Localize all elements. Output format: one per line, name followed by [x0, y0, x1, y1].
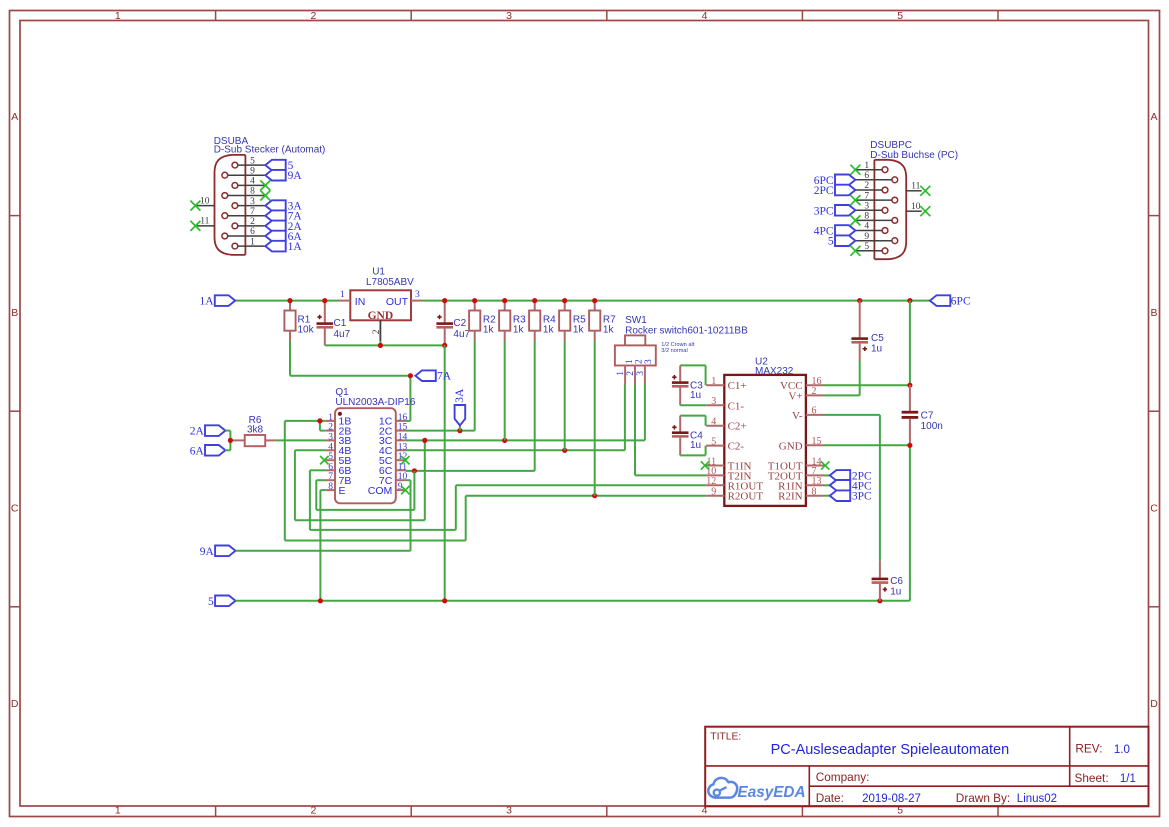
capacitor C2 4u7: [436, 301, 470, 346]
svg-text:15: 15: [812, 436, 822, 447]
Q1 pin 10 7C: [379, 472, 408, 487]
svg-text:D: D: [11, 698, 19, 710]
svg-text:6A: 6A: [190, 445, 205, 457]
node 6PC flag: [930, 295, 971, 307]
DSUBA pin 3: [232, 197, 265, 209]
resistor R5 1k: [559, 303, 586, 341]
DSUBA pin 11: [190, 217, 214, 231]
svg-text:E: E: [339, 485, 346, 497]
wire 6C row to R4: [406, 341, 535, 471]
junction VCC C7: [907, 383, 912, 388]
frame row letters right: [1150, 111, 1158, 710]
svg-text:GND: GND: [779, 440, 803, 452]
node 9A flag: [200, 546, 236, 558]
svg-text:C2+: C2+: [728, 421, 747, 433]
svg-text:3: 3: [636, 371, 646, 376]
node 2PC flag: [830, 470, 872, 482]
frame column numbers bottom: [115, 805, 903, 817]
svg-text:5: 5: [328, 452, 333, 462]
U2 pin 12 R1OUT: [706, 476, 763, 492]
svg-text:7: 7: [328, 472, 333, 482]
wire R2IN to 3PC: [824, 495, 830, 497]
node 2A flag: [190, 425, 226, 437]
svg-text:9A: 9A: [288, 170, 303, 182]
svg-text:9: 9: [711, 487, 716, 498]
U2 pin 4 C2+: [706, 417, 746, 433]
svg-text:3: 3: [250, 197, 255, 207]
DSUBPC pin 4: [855, 222, 887, 234]
svg-text:7: 7: [864, 191, 869, 201]
node 6A flag: [190, 445, 226, 457]
U2 pin 14 T1OUT: [768, 456, 824, 472]
U2 pin 3 C1-: [706, 396, 744, 412]
Q1 pin 9 COM: [368, 482, 406, 497]
wire R3 bottom: [504, 341, 506, 440]
svg-text:2: 2: [372, 329, 382, 334]
svg-text:3: 3: [415, 290, 420, 300]
wire 1B loop to R2OUT: [285, 421, 706, 541]
svg-text:8: 8: [812, 487, 817, 498]
svg-text:1A: 1A: [199, 296, 214, 308]
Q1 pin 4 4B: [325, 442, 351, 457]
capacitor C7 100n: [902, 385, 943, 445]
svg-text:4: 4: [702, 10, 708, 22]
svg-text:2: 2: [634, 359, 644, 364]
SW1 pin 3: [636, 366, 646, 385]
switch SW1 Rocker switch601-10211BB: [615, 315, 748, 366]
svg-text:COM: COM: [368, 485, 393, 497]
svg-text:4: 4: [250, 177, 255, 187]
DSUBPC pin 7: [855, 191, 897, 203]
svg-text:1: 1: [340, 290, 345, 300]
junction C6 bottom: [877, 598, 882, 603]
svg-text:1: 1: [711, 376, 716, 387]
svg-text:9: 9: [864, 232, 869, 242]
svg-text:A: A: [1150, 111, 1157, 123]
svg-text:2A: 2A: [190, 426, 205, 438]
junction 2A-6A: [228, 438, 233, 443]
Q1 pin 14 3C: [379, 432, 408, 447]
svg-text:ULN2003A-DIP16: ULN2003A-DIP16: [335, 397, 415, 408]
svg-text:C: C: [11, 502, 19, 514]
SW1 note text: [661, 342, 694, 354]
svg-text:1k: 1k: [573, 324, 585, 335]
svg-text:OUT: OUT: [386, 296, 409, 308]
wire R1IN to 4PC: [824, 484, 830, 486]
svg-text:R2OUT: R2OUT: [728, 491, 764, 503]
DSUBA pin 10: [190, 196, 214, 210]
junction R5 bottom: [562, 448, 567, 453]
wire Q1 E to bottom rail: [320, 490, 325, 601]
wire 4C row to SW1 pin1: [406, 385, 625, 451]
capacitor C5 1u: [851, 301, 884, 396]
DSUBPC net flag 3PC: [814, 205, 856, 217]
SW1 pin 2: [626, 366, 636, 385]
U2 no-connect T1IN: [701, 461, 709, 469]
svg-text:1k: 1k: [483, 324, 495, 335]
U1 pin 1: [339, 290, 351, 301]
DSUBA net flag 6A: [265, 231, 302, 243]
junction R3 bottom: [502, 438, 507, 443]
connector DSUBA D-Sub Stecker (Automat): [214, 136, 326, 255]
junction 7A: [408, 373, 413, 378]
svg-text:8: 8: [864, 212, 869, 222]
svg-text:L7805ABV: L7805ABV: [366, 277, 414, 288]
wire 4B loop to 3C: [295, 440, 425, 520]
U2 pin 8 R2IN: [778, 487, 824, 503]
U2 pin 13 R1IN: [778, 476, 824, 492]
resistor R1 10k: [284, 303, 314, 341]
svg-text:1: 1: [864, 161, 869, 171]
Q1 pin 16 1C: [379, 413, 408, 428]
capacitor C3 1u: [672, 365, 706, 405]
wire R5 bottom: [564, 341, 566, 450]
resistor R6 3k8: [235, 415, 276, 446]
svg-text:Date:: Date:: [816, 791, 844, 805]
frame row ticks right: [1149, 216, 1160, 607]
wire C2 gnd to bottom rail: [444, 345, 446, 600]
svg-text:1: 1: [115, 10, 121, 22]
DSUBPC no-connect pin 1: [850, 165, 860, 175]
svg-text:1: 1: [625, 359, 635, 364]
svg-text:D: D: [1150, 698, 1158, 710]
svg-text:SW1: SW1: [625, 315, 647, 326]
junction E bottom: [318, 598, 323, 603]
ic U2 MAX232: [724, 357, 806, 506]
title block frame: [705, 727, 1148, 807]
svg-text:B: B: [11, 307, 18, 319]
DSUBPC net flag 4PC: [814, 225, 856, 237]
svg-text:10: 10: [200, 196, 210, 206]
svg-text:3: 3: [328, 432, 333, 442]
DSUBPC no-connect pin 7: [850, 195, 860, 205]
net 1A top rail wire: [235, 300, 930, 302]
U2 pin 16 VCC: [780, 376, 824, 392]
svg-text:4u7: 4u7: [334, 329, 351, 340]
frame column ticks top: [216, 11, 998, 21]
svg-text:1u: 1u: [871, 343, 882, 354]
DSUBA pin 1: [232, 237, 265, 249]
node 3PC flag: [830, 490, 872, 502]
junctions on top rail: [287, 298, 912, 303]
DSUBPC pin 9: [855, 232, 897, 244]
DSUBA pin 2: [232, 217, 265, 229]
svg-text:4u7: 4u7: [453, 329, 470, 340]
wire R6 to Q1 3B: [275, 439, 325, 441]
svg-text:3PC: 3PC: [852, 491, 872, 503]
U1 pin 2 GND: [372, 320, 382, 345]
node 7A flag: [415, 370, 451, 382]
DSUBA pin 9: [222, 166, 265, 178]
capacitor C1 4u7: [317, 301, 351, 346]
Q1 pin 12 5C: [379, 452, 408, 467]
wire bottom rail: [236, 600, 910, 602]
junction C2 bottom: [442, 343, 447, 348]
svg-text:10k: 10k: [298, 324, 315, 335]
DSUBPC pin 10: [906, 202, 930, 216]
svg-text:3: 3: [711, 396, 716, 407]
wire 7B loop to 6C: [316, 471, 414, 510]
DSUBA net flag 7A: [265, 210, 302, 222]
svg-text:B: B: [1150, 307, 1157, 319]
svg-text:4: 4: [328, 442, 333, 452]
U2 pin 1 C1+: [706, 376, 746, 392]
wire 3C row to SW1 pin3: [406, 385, 645, 441]
svg-text:5: 5: [828, 236, 834, 248]
DSUBPC net flag 6PC: [814, 175, 856, 187]
DSUBA net flag 3A: [265, 200, 302, 212]
net 7A wire: [290, 341, 410, 421]
svg-text:11: 11: [200, 217, 209, 227]
svg-text:2019-08-27: 2019-08-27: [862, 793, 921, 805]
svg-text:2PC: 2PC: [814, 185, 834, 197]
Sheet label: [1075, 771, 1109, 785]
svg-text:100n: 100n: [921, 421, 943, 432]
U2 pin 5 C2-: [706, 436, 744, 452]
node 3A flag: [454, 388, 466, 431]
svg-text:3PC: 3PC: [814, 205, 834, 217]
capacitor C4 1u: [672, 416, 706, 456]
DSUBA no-connect pin 4: [260, 180, 270, 190]
DSUBPC pin 6: [855, 171, 897, 183]
Q1 pin 13 4C: [379, 442, 408, 457]
resistor R4 1k: [529, 303, 556, 341]
resistor R2 1k: [469, 303, 496, 341]
junction GND C7: [907, 443, 912, 448]
Date value: [862, 793, 921, 805]
U2 pin 9 R2OUT: [706, 487, 763, 503]
svg-text:1u: 1u: [890, 586, 901, 597]
DSUBPC pin 11: [906, 182, 930, 196]
DSUBA pin 8: [222, 187, 265, 199]
DSUBPC pin 8: [855, 212, 897, 224]
resistor R3 1k: [499, 303, 526, 341]
svg-text:A: A: [11, 111, 18, 123]
DSUBPC pin 1: [855, 161, 887, 173]
svg-text:V-: V-: [792, 410, 803, 422]
svg-text:3: 3: [506, 10, 512, 22]
junction 3A: [457, 428, 462, 433]
svg-text:3: 3: [644, 359, 654, 364]
title text: [771, 742, 1010, 758]
DSUBPC pin 2: [855, 181, 887, 193]
wire 6B loop to R1OUT: [310, 470, 706, 530]
svg-text:16: 16: [398, 413, 408, 423]
svg-text:C: C: [1150, 502, 1158, 514]
svg-text:7A: 7A: [437, 371, 452, 383]
svg-text:8: 8: [328, 482, 333, 492]
DSUBPC net flag 2PC: [814, 185, 856, 197]
U2 pin 7 T2OUT: [768, 466, 824, 482]
svg-text:TITLE:: TITLE:: [710, 732, 741, 743]
frame column numbers top: [115, 10, 903, 22]
svg-text:1/1: 1/1: [1120, 773, 1136, 785]
Drawn By label: [956, 791, 1010, 805]
svg-text:1: 1: [328, 413, 333, 423]
DSUBA pin 5: [232, 156, 265, 168]
svg-text:C1-: C1-: [728, 400, 745, 412]
wire SW1 pin2 to T2IN: [635, 385, 706, 476]
Q1 no-connect COM: [401, 486, 409, 494]
REV value: [1114, 744, 1130, 756]
transistor-array Q1 ULN2003A-DIP16: [335, 387, 416, 504]
svg-text:6: 6: [864, 171, 869, 181]
Q1 pin 6 6B: [325, 462, 351, 477]
Q1 pin 15 2C: [379, 423, 408, 438]
svg-text:1k: 1k: [603, 324, 615, 335]
DSUBPC pin 3: [855, 202, 887, 214]
Q1 no-connect 5C: [401, 456, 409, 464]
svg-text:12: 12: [706, 476, 716, 487]
node 4PC flag: [830, 480, 872, 492]
junction 6C loop: [412, 468, 417, 473]
DSUBPC net flag 5: [828, 235, 856, 247]
svg-text:2: 2: [626, 371, 636, 376]
Q1 pin 8 E: [325, 482, 345, 497]
svg-text:2: 2: [328, 423, 333, 433]
svg-text:4: 4: [711, 417, 716, 428]
svg-text:C7: C7: [921, 410, 934, 421]
svg-text:8: 8: [250, 187, 255, 197]
Q1 pin 5 5B: [325, 452, 351, 467]
resistor R7 1k: [589, 303, 616, 341]
svg-text:3/2 normal: 3/2 normal: [661, 348, 687, 354]
wire GND to C7: [824, 445, 910, 601]
svg-text:1u: 1u: [690, 440, 701, 451]
wire GND rail under U1: [325, 344, 445, 346]
DSUBA pin 4: [232, 177, 265, 189]
svg-text:D-Sub Stecker (Automat): D-Sub Stecker (Automat): [214, 145, 326, 156]
Q1 pin 3 3B: [325, 432, 351, 447]
svg-text:3: 3: [864, 202, 869, 212]
svg-text:11: 11: [911, 182, 920, 192]
junction R7 bottom on R2OUT net: [592, 493, 597, 498]
wire V+ to C5: [824, 394, 860, 396]
DSUBA net flag 5: [265, 160, 293, 172]
svg-text:IN: IN: [355, 296, 366, 308]
title block TITLE label: [710, 732, 741, 743]
node 5 flag: [208, 596, 235, 608]
frame row letters left: [11, 111, 19, 710]
svg-text:C2-: C2-: [728, 441, 745, 453]
DSUBPC no-connect pin 8: [850, 215, 860, 225]
wire V- to C6: [824, 415, 880, 561]
svg-text:D-Sub Buchse (PC): D-Sub Buchse (PC): [870, 150, 958, 161]
voltage regulator U1 L7805ABV: [350, 267, 414, 323]
Q1 pin 1 1B: [325, 413, 351, 428]
Q1 pin 7 7B: [325, 472, 351, 487]
U2 pin 6 V-: [792, 406, 824, 422]
svg-text:5: 5: [711, 436, 716, 447]
Drawn By value: [1017, 793, 1057, 805]
junction U1 pin2 gnd: [378, 343, 383, 348]
svg-text:Sheet:: Sheet:: [1075, 771, 1109, 785]
svg-text:1: 1: [115, 805, 121, 817]
svg-text:3: 3: [506, 805, 512, 817]
svg-text:PC-Ausleseadapter Spieleautoma: PC-Ausleseadapter Spieleautomaten: [771, 742, 1010, 758]
svg-text:9A: 9A: [200, 546, 215, 558]
wire 9A to Q1 7C: [236, 480, 411, 551]
junction 1B: [317, 418, 322, 423]
svg-text:EasyEDA: EasyEDA: [738, 784, 806, 801]
svg-text:13: 13: [812, 476, 822, 487]
U2 pin 15 GND: [779, 436, 824, 452]
svg-text:1A: 1A: [288, 241, 303, 253]
Date label: [816, 791, 844, 805]
svg-text:REV:: REV:: [1075, 742, 1102, 756]
svg-text:Drawn By:: Drawn By:: [956, 791, 1010, 805]
Q1 no-connect 5B: [320, 456, 328, 464]
svg-text:10: 10: [911, 202, 921, 212]
svg-text:1.0: 1.0: [1114, 744, 1130, 756]
svg-text:2: 2: [812, 386, 817, 397]
DSUBPC no-connect pin 5: [850, 246, 860, 256]
U1 pin 3: [411, 290, 423, 301]
svg-text:5: 5: [250, 156, 255, 166]
DSUBA net flag 1A: [265, 241, 302, 253]
frame column ticks bottom: [216, 806, 998, 817]
svg-text:9: 9: [250, 166, 255, 176]
svg-text:2: 2: [310, 10, 316, 22]
svg-text:C1: C1: [334, 318, 347, 329]
wire VCC to C7 branch: [824, 301, 910, 386]
U2 pin 10 T2IN: [706, 466, 751, 482]
svg-text:R2IN: R2IN: [778, 491, 803, 503]
DSUBA net flag 2A: [265, 221, 302, 233]
svg-text:V+: V+: [788, 390, 802, 402]
svg-text:2: 2: [250, 217, 255, 227]
svg-text:5: 5: [208, 596, 214, 608]
svg-text:Company:: Company:: [816, 770, 870, 784]
svg-text:1k: 1k: [513, 324, 525, 335]
REV label: [1075, 742, 1102, 756]
connector DSUBPC D-Sub Buchse (PC): [870, 140, 958, 259]
svg-text:5: 5: [897, 10, 903, 22]
svg-text:3k8: 3k8: [247, 424, 264, 435]
DSUBA net flag 9A: [265, 170, 302, 182]
U2 pin 11 T1IN: [706, 456, 751, 472]
Company label: [816, 770, 870, 784]
svg-text:Rocker switch601-10211BB: Rocker switch601-10211BB: [625, 326, 748, 337]
svg-text:6: 6: [812, 406, 817, 417]
wire 1B 2B tie: [285, 421, 325, 431]
svg-text:Linus02: Linus02: [1017, 793, 1057, 805]
DSUBA pin 6: [222, 227, 265, 239]
frame row ticks left: [10, 216, 21, 607]
svg-text:2: 2: [310, 805, 316, 817]
U2 pin 2 V+: [788, 386, 824, 402]
svg-text:5: 5: [864, 242, 869, 252]
wire T2OUT to 2PC: [824, 474, 830, 476]
svg-text:C2: C2: [453, 318, 466, 329]
junction 3C loop: [422, 438, 427, 443]
svg-text:2: 2: [864, 181, 869, 191]
svg-text:6PC: 6PC: [951, 296, 971, 308]
DSUBA no-connect pin 8: [260, 191, 270, 201]
Sheet value: [1120, 773, 1136, 785]
svg-text:1k: 1k: [543, 324, 555, 335]
capacitor C6 1u: [872, 561, 904, 601]
SW1 pin 1: [616, 366, 626, 385]
Q1 pin 2 2B: [325, 423, 351, 438]
U2 no-connect T1OUT: [821, 461, 829, 469]
svg-text:3A: 3A: [454, 388, 466, 403]
svg-text:C1+: C1+: [728, 380, 747, 392]
Q1 pin 11 6C: [379, 462, 407, 477]
svg-text:MAX232: MAX232: [755, 366, 794, 377]
svg-text:7: 7: [250, 207, 255, 217]
wire R7 bottom: [594, 341, 596, 496]
